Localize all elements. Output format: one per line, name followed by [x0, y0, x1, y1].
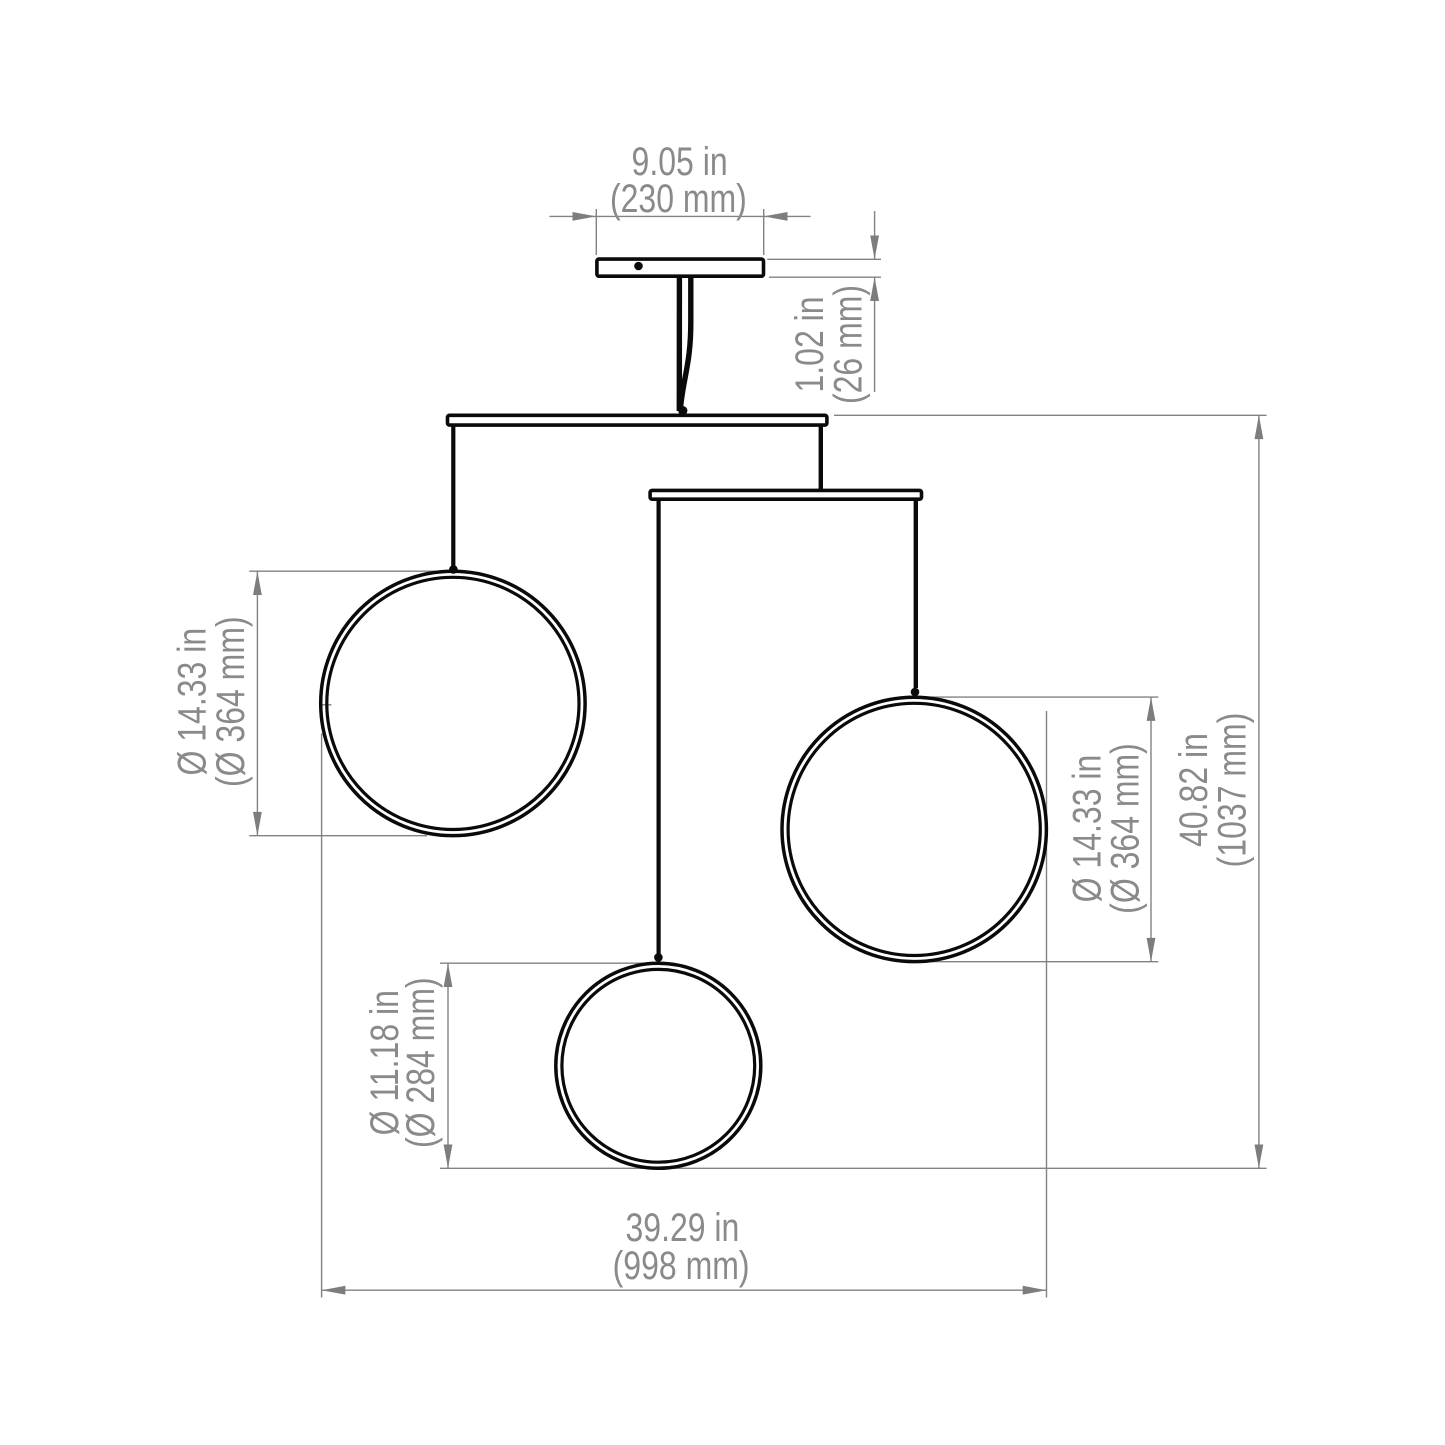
lower arm bar — [650, 490, 921, 499]
suspension wire center (to small ring) — [656, 499, 660, 954]
dim overall height dimension line — [1258, 415, 1260, 1168]
dim overall height arrow up — [1255, 415, 1264, 439]
dim right ring dimension line — [1150, 697, 1152, 962]
dim 9.05in arrow right — [764, 212, 788, 221]
wire end dot left ring — [449, 565, 458, 574]
dim overall width extension line left — [321, 734, 323, 1298]
dim small ring arrow down — [444, 1145, 453, 1169]
dim 9.05in extension line left — [595, 209, 597, 255]
ceiling canopy — [597, 259, 764, 276]
dim small ring + overall height shared bottom extension line — [440, 1167, 1267, 1169]
dim 1.02in extension line bottom — [769, 276, 881, 278]
cable junction blob — [678, 406, 687, 415]
right ring outer circle — [782, 697, 1046, 961]
dim right ring arrow up — [1147, 697, 1156, 721]
wire end dot small ring — [654, 953, 663, 962]
dim left ring dimension line — [256, 571, 258, 836]
dim left ring extension line top — [249, 570, 441, 572]
small ring inner circle — [562, 969, 755, 1162]
dim small ring dimension line — [447, 963, 449, 1168]
left ring outer circle — [321, 571, 585, 835]
dim small ring arrow up — [444, 963, 453, 987]
dim left ring extension line bottom — [249, 835, 427, 837]
dim right ring label — [1064, 743, 1147, 914]
dim overall width dimension line — [322, 1289, 1047, 1291]
dim overall height arrow down — [1255, 1145, 1264, 1169]
dim 1.02in label — [787, 285, 871, 404]
power cable strand right — [680, 278, 691, 412]
dim small ring label — [362, 977, 443, 1148]
dim 1.02in arrow up — [870, 277, 879, 301]
left ring inner circle — [327, 577, 579, 829]
dim 1.02in arrow down — [870, 236, 879, 260]
dim left ring label — [169, 616, 253, 787]
dim 1.02in extension line top — [767, 258, 881, 260]
dim overall width arrow left — [322, 1286, 346, 1295]
svg-text:(26 mm): (26 mm) — [825, 285, 870, 404]
dim 9.05in extension line right — [763, 209, 765, 255]
dim left ring arrow down — [253, 812, 262, 836]
dim 1.02in dimension line lower — [874, 277, 876, 392]
right ring inner circle — [788, 703, 1040, 955]
svg-text:(Ø 284 mm): (Ø 284 mm) — [397, 977, 442, 1148]
svg-text:(1037 mm): (1037 mm) — [1209, 713, 1254, 868]
svg-text:(Ø 364 mm): (Ø 364 mm) — [1102, 743, 1147, 914]
canopy screw dot — [634, 262, 643, 271]
dim small ring extension line top — [440, 962, 646, 964]
dim left ring arrow up — [253, 571, 262, 595]
suspension wire upper-right (bar to bar) — [819, 425, 823, 490]
tangent tick left ring — [321, 704, 332, 706]
dim right ring extension line bottom — [922, 961, 1159, 963]
svg-text:(Ø 364 mm): (Ø 364 mm) — [208, 616, 253, 787]
dim overall height label — [1171, 713, 1255, 868]
dim right ring arrow down — [1147, 938, 1156, 962]
dim overall width arrow right — [1023, 1286, 1047, 1295]
dim overall height extension line top — [834, 414, 1267, 416]
suspension wire left — [451, 425, 455, 566]
dim right ring extension line top — [922, 696, 1159, 698]
suspension wire right — [914, 499, 918, 688]
svg-text:(998 mm): (998 mm) — [613, 1242, 750, 1287]
svg-text:(230 mm): (230 mm) — [610, 175, 747, 220]
power cable strand left — [677, 278, 683, 412]
dim 1.02in dimension line upper — [874, 211, 876, 259]
upper arm bar — [448, 415, 827, 425]
wire end dot right ring — [911, 688, 920, 697]
dim 9.05in arrow left — [573, 212, 597, 221]
dim overall width extension line right — [1046, 711, 1048, 1298]
small ring outer circle — [556, 963, 761, 1168]
dim 9.05in dimension line — [550, 215, 811, 217]
